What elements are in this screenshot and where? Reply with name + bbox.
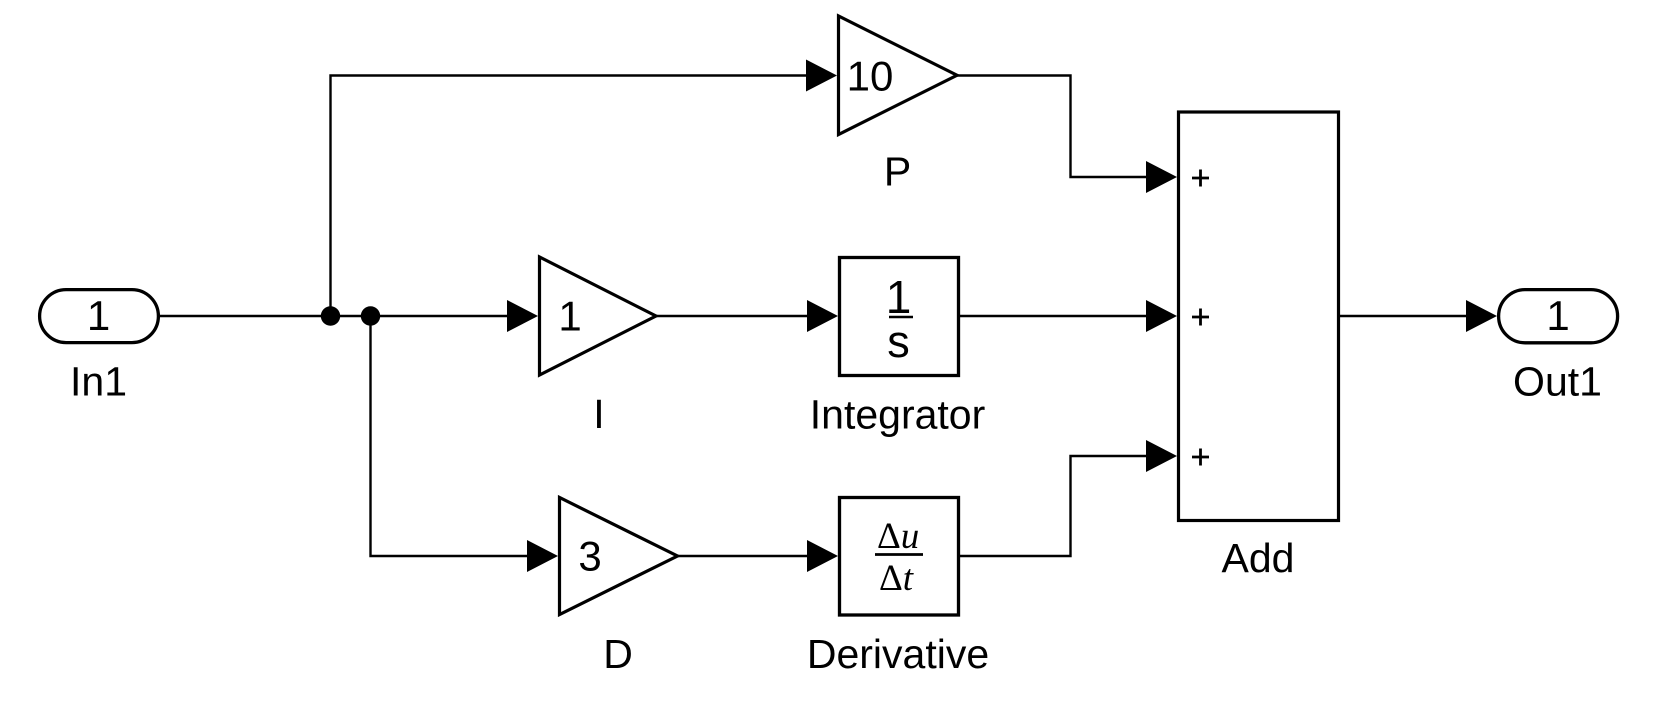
junction dot B <box>361 306 380 325</box>
svg-text:Δt: Δt <box>879 558 915 599</box>
plus sign input 1 <box>1192 170 1209 187</box>
gain D <box>560 498 678 615</box>
svg-text:3: 3 <box>578 533 601 580</box>
svg-text:Derivative: Derivative <box>807 631 989 677</box>
svg-text:1: 1 <box>558 293 581 340</box>
svg-text:Add: Add <box>1222 535 1295 581</box>
wire P to Add input 1 <box>957 76 1177 194</box>
svg-text:In1: In1 <box>70 359 127 405</box>
junction dot A <box>321 306 340 325</box>
wire Derivative to Add input 3 <box>960 440 1177 556</box>
svg-text:s: s <box>887 316 910 367</box>
svg-text:I: I <box>593 391 604 437</box>
svg-text:Integrator: Integrator <box>810 392 986 438</box>
wire Add to Out1 <box>1339 300 1498 332</box>
svg-text:P: P <box>884 149 911 195</box>
output port Out1 <box>1499 290 1618 343</box>
svg-text:10: 10 <box>847 53 894 100</box>
derivative block <box>840 498 959 616</box>
svg-text:Out1: Out1 <box>1513 359 1602 405</box>
plus sign input 2 <box>1192 309 1209 326</box>
input port In1 <box>40 290 159 343</box>
svg-text:1: 1 <box>1546 292 1569 339</box>
wire junction B down to D gain <box>371 316 559 572</box>
wire junction A up to P gain <box>331 60 838 317</box>
wire Integrator to Add input 2 <box>960 300 1177 332</box>
wire In1 to I gain <box>160 300 538 332</box>
wire I to Integrator <box>656 300 838 332</box>
plus sign input 3 <box>1192 449 1209 466</box>
svg-text:1: 1 <box>87 292 110 339</box>
gain P <box>839 16 958 135</box>
adder block Add <box>1179 112 1339 521</box>
gain I <box>540 257 657 375</box>
svg-text:Δu: Δu <box>877 516 919 557</box>
wire D to Derivative <box>678 540 839 572</box>
svg-text:D: D <box>603 631 633 677</box>
integrator block <box>840 258 959 376</box>
